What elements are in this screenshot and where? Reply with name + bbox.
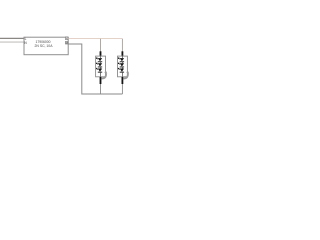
LED D4	[118, 58, 124, 63]
wire N input (light, from left edge to driver)	[0, 41, 24, 44]
arrow curved E2	[124, 73, 128, 78]
LED driver U1 box	[24, 37, 68, 55]
LED D1	[96, 58, 102, 63]
module E1 box	[96, 56, 106, 77]
module E2 box	[118, 56, 128, 77]
LED D2	[96, 63, 102, 68]
LED D5	[118, 63, 124, 68]
wire module E1 bottom lead to - wire	[100, 84, 102, 94]
wire + (tan) driver to modules	[68, 37, 122, 39]
lead top black E2	[122, 51, 124, 56]
LED module E1	[96, 51, 108, 84]
wire module E2 bottom lead to - wire	[121, 84, 123, 94]
wire + branch to module E1	[100, 39, 102, 52]
wire + drop to module E2	[121, 39, 123, 52]
wire L input (dark, from left edge to driver)	[0, 38, 24, 39]
LED D3	[96, 68, 102, 73]
lead bottom black E1	[100, 77, 102, 84]
lead top black E1	[100, 51, 102, 56]
lead bottom black E2	[122, 77, 124, 84]
terminal - (sec. output bottom)	[65, 42, 68, 45]
svg-text:2N SC, 10A: 2N SC, 10A	[35, 44, 54, 48]
LED D6	[118, 68, 124, 73]
LED module E2	[118, 51, 130, 84]
string wire E1	[100, 56, 102, 77]
terminal + (sec. output top)	[65, 37, 68, 40]
arrow curved E1	[102, 73, 106, 78]
string wire E2	[121, 56, 123, 77]
wire - (gray) driver down and along bottom	[68, 44, 122, 94]
